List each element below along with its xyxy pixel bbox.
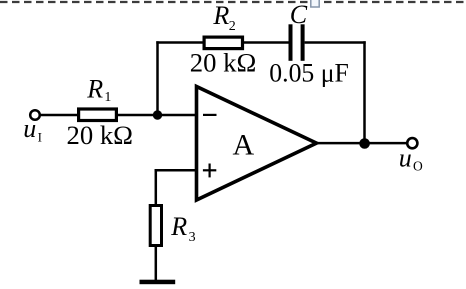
svg-text:R: R: [86, 75, 103, 104]
wire top corner to R2: [156, 41, 204, 44]
capacitor C: [289, 24, 293, 61]
svg-text:O: O: [413, 158, 423, 173]
terminal u_I: [30, 110, 40, 120]
wire R2 to C: [243, 41, 289, 44]
selection border dashes (decorative): [0, 1, 466, 3]
svg-text:I: I: [38, 130, 42, 145]
wire feedback left vertical: [156, 41, 159, 116]
wire down to R3: [155, 169, 158, 205]
svg-text:1: 1: [104, 90, 111, 105]
svg-text:A: A: [233, 128, 255, 161]
wire R3 to ground: [155, 246, 158, 281]
resistor R2: [204, 37, 242, 49]
svg-text:u: u: [23, 114, 36, 143]
svg-text:R: R: [212, 1, 229, 30]
op-amp plus sign: [203, 164, 216, 178]
svg-text:R: R: [170, 212, 187, 241]
resistor R1: [79, 109, 117, 121]
wire output: [317, 142, 408, 145]
svg-text:20 kΩ: 20 kΩ: [67, 121, 134, 150]
svg-text:2: 2: [229, 19, 236, 34]
resistor R3: [150, 206, 161, 246]
node junction at inverting input: [153, 110, 162, 119]
terminal u_O: [407, 138, 417, 148]
node output junction: [359, 138, 370, 149]
svg-text:20 kΩ: 20 kΩ: [190, 49, 256, 78]
op-amp U A: [197, 87, 317, 201]
ground: [140, 280, 176, 285]
svg-text:3: 3: [189, 230, 196, 245]
wire C to top-right corner: [305, 41, 366, 44]
svg-text:C: C: [290, 0, 308, 29]
svg-text:0.05 μF: 0.05 μF: [269, 59, 349, 88]
op-amp minus sign: [203, 114, 217, 116]
wire R1 to inverting input: [117, 114, 197, 117]
wire input to R1: [40, 114, 78, 117]
wire plus input: [155, 169, 197, 172]
svg-text:u: u: [399, 143, 412, 172]
wire right vertical down: [363, 41, 366, 143]
